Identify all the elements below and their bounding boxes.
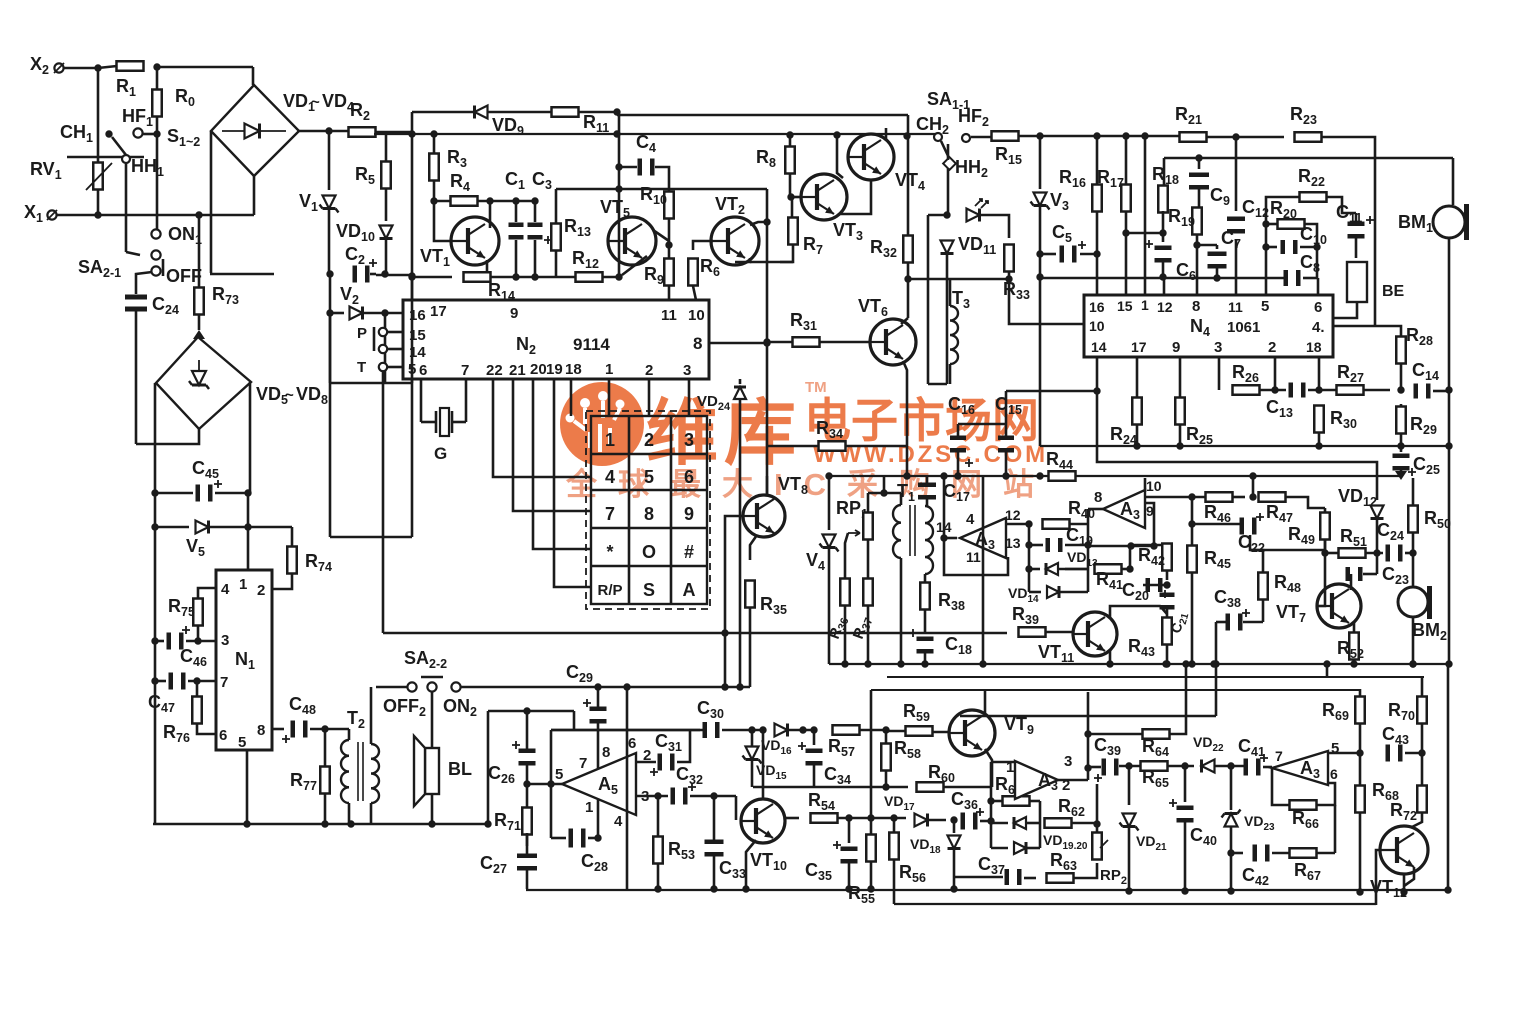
node — [594, 834, 601, 841]
wire — [668, 219, 671, 300]
rail y687 — [461, 686, 750, 689]
keypad row line — [591, 527, 707, 530]
wire — [1197, 244, 1217, 247]
capacitor C37 — [1005, 869, 1022, 885]
diode inside VD1-VD4 — [245, 124, 260, 139]
plate — [451, 411, 454, 433]
resistor R2 — [349, 127, 376, 137]
wire — [932, 731, 950, 734]
ceramic resonator BE — [1347, 262, 1367, 302]
feedback wire — [944, 538, 1008, 575]
node — [1159, 229, 1166, 236]
wire — [813, 730, 816, 745]
wire — [619, 166, 637, 169]
wire — [515, 240, 518, 277]
wire — [551, 729, 704, 732]
wire VT10 collector — [762, 730, 765, 799]
wire — [1285, 497, 1325, 508]
wire pin6 — [420, 379, 423, 422]
pin6 wire — [1316, 783, 1335, 805]
node — [623, 683, 630, 690]
wire VT9 collector — [984, 690, 987, 717]
node — [484, 820, 491, 827]
wire — [156, 116, 159, 215]
zener V4 — [820, 535, 839, 552]
node — [845, 885, 852, 892]
wire — [971, 136, 991, 139]
photodiode LED — [967, 199, 989, 222]
bracket — [373, 327, 376, 351]
pin2 wire — [636, 761, 656, 764]
wire pin21 to keypad row — [513, 379, 591, 511]
node — [710, 792, 717, 799]
wire — [885, 730, 888, 744]
wire — [1166, 607, 1169, 618]
wire pin18 down — [1318, 357, 1321, 390]
svg-text:1061: 1061 — [1227, 319, 1260, 336]
wire — [870, 818, 873, 835]
capacitor C36 — [961, 808, 985, 830]
node — [654, 885, 661, 892]
svg-text:4: 4 — [966, 511, 975, 528]
node — [748, 726, 755, 733]
wire — [156, 215, 159, 229]
wire — [1376, 519, 1379, 553]
node — [1195, 154, 1202, 161]
capacitor C10 — [1281, 240, 1298, 254]
bridge rectifier VD5-VD8 — [156, 337, 251, 429]
capacitor C42 — [1253, 845, 1270, 862]
node — [1445, 386, 1452, 393]
svg-text:7: 7 — [605, 504, 615, 524]
diode VD13 — [1046, 563, 1058, 575]
wire — [1316, 852, 1335, 855]
riser x871 — [870, 690, 873, 787]
resistor R70 — [1417, 697, 1427, 724]
node — [428, 820, 435, 827]
node — [1036, 273, 1043, 280]
wire — [657, 796, 660, 837]
wire — [943, 786, 992, 789]
wire — [1143, 584, 1167, 587]
wire — [1065, 568, 1088, 571]
wire — [1243, 621, 1263, 624]
resistor R6 — [688, 259, 698, 286]
wire — [1045, 631, 1072, 634]
op-amp A3c — [1015, 761, 1058, 799]
node — [833, 131, 840, 138]
diode VD11 — [941, 241, 954, 254]
wire VT8 collector — [766, 476, 769, 496]
wire — [1452, 158, 1455, 205]
svg-text:5: 5 — [238, 734, 246, 751]
wire — [1412, 533, 1415, 553]
wire VT11 collector — [1110, 606, 1167, 618]
wire — [1359, 753, 1362, 785]
w — [751, 730, 754, 746]
transistor VT4 — [848, 134, 894, 180]
resistor R57 — [833, 725, 860, 735]
wire — [249, 382, 252, 493]
svg-text:P: P — [357, 325, 367, 342]
node — [615, 273, 622, 280]
node — [867, 814, 874, 821]
contact T — [379, 363, 387, 371]
node — [1182, 660, 1189, 667]
wire to C11 — [1326, 197, 1356, 213]
wire — [677, 730, 690, 762]
diode inside VD5-VD8 — [189, 371, 209, 389]
wire R34 right — [845, 445, 907, 448]
wire VT7 emitter — [1353, 622, 1356, 633]
node — [1193, 241, 1200, 248]
capacitor C2 — [353, 259, 378, 283]
wire — [907, 115, 910, 137]
svg-text:10: 10 — [688, 307, 705, 324]
wire — [766, 222, 769, 496]
wire — [893, 818, 896, 833]
wire — [1216, 621, 1226, 624]
transistor VT2 — [711, 217, 759, 265]
wire — [1250, 549, 1325, 552]
node — [94, 64, 101, 71]
keypad dashed outline — [586, 411, 710, 609]
node — [326, 309, 333, 316]
wire VT2 base — [693, 241, 713, 250]
wire — [791, 197, 794, 218]
capacitor C34 — [798, 742, 823, 766]
capacitor C23 — [1346, 567, 1363, 581]
wire — [488, 710, 574, 713]
diode VD22 — [1202, 760, 1215, 773]
resistor R60 — [917, 782, 944, 792]
wire VT8 emitter — [750, 535, 757, 560]
resistor R27 — [1337, 385, 1364, 395]
svg-text:21: 21 — [509, 362, 526, 379]
wire rail — [1164, 157, 1453, 160]
wire — [1019, 135, 1180, 138]
wire — [1235, 137, 1238, 211]
wire — [1400, 364, 1403, 390]
wire — [1359, 689, 1362, 697]
node — [721, 683, 728, 690]
wire VT7 base — [1317, 553, 1325, 606]
capacitor C43 — [1386, 745, 1403, 762]
svg-text:4: 4 — [221, 581, 230, 598]
svg-text:*: * — [606, 542, 613, 562]
wire — [526, 711, 529, 749]
svg-text:R/P: R/P — [597, 582, 622, 599]
resistor R68 — [1355, 786, 1365, 813]
capacitor C21 — [1160, 593, 1175, 610]
capacitor C24 — [125, 295, 147, 312]
node — [665, 241, 672, 248]
svg-text:S: S — [643, 580, 655, 600]
node — [615, 185, 622, 192]
wire R48 to C22 — [1250, 535, 1263, 573]
svg-text:1: 1 — [605, 361, 613, 378]
long wire y633 — [383, 632, 750, 635]
node — [1271, 386, 1278, 393]
wire VT1 collector — [489, 201, 492, 228]
wire — [1184, 766, 1187, 802]
wire — [1126, 232, 1163, 235]
zener VD15 — [743, 747, 762, 764]
wire — [1096, 784, 1099, 823]
svg-text:15: 15 — [1117, 298, 1133, 314]
resistor R0 — [152, 90, 162, 117]
op-amp A5 — [562, 753, 636, 815]
wire pin3 down — [1218, 357, 1221, 390]
svg-text:10: 10 — [1089, 318, 1105, 334]
core — [909, 505, 911, 556]
svg-text:7: 7 — [461, 362, 469, 379]
wire — [1230, 827, 1233, 891]
resistor R10 — [664, 192, 674, 219]
svg-text:12: 12 — [1005, 507, 1021, 523]
resistor R8 — [785, 147, 795, 174]
wire — [57, 214, 254, 217]
pin12 wire — [1006, 523, 1029, 526]
op-amp A3d — [1272, 751, 1328, 785]
svg-text:11: 11 — [1228, 299, 1243, 315]
svg-text:3: 3 — [683, 362, 691, 379]
node — [940, 472, 947, 479]
wire — [1412, 478, 1415, 505]
capacitor C1 — [509, 223, 524, 240]
wire — [957, 452, 960, 476]
wire — [655, 167, 669, 191]
wire — [1363, 573, 1377, 576]
node — [151, 677, 158, 684]
wire — [491, 276, 619, 279]
node — [1127, 542, 1134, 549]
wire — [431, 692, 434, 748]
wire — [597, 723, 600, 838]
resistor R61 — [1003, 796, 1030, 806]
node — [1409, 549, 1416, 556]
main rail — [829, 475, 1402, 477]
wire — [1039, 136, 1042, 189]
pin8 wire — [1088, 508, 1103, 511]
node — [151, 489, 158, 496]
node — [1188, 520, 1195, 527]
wire — [1162, 211, 1165, 233]
capacitor C29 — [583, 699, 607, 724]
node — [710, 885, 717, 892]
node — [897, 660, 904, 667]
node — [1212, 660, 1219, 667]
svg-text:4: 4 — [605, 467, 615, 487]
resistor R28 — [1396, 337, 1406, 364]
wire row730 — [551, 729, 700, 732]
wire — [198, 314, 201, 330]
wire — [385, 189, 388, 221]
node — [193, 677, 200, 684]
right rail lower — [1447, 664, 1450, 890]
diode VD10 — [380, 226, 393, 239]
wire — [162, 259, 165, 276]
node — [613, 130, 620, 137]
wire VT12 base — [1376, 850, 1381, 905]
wire — [926, 499, 929, 506]
capacitor C9 — [1189, 173, 1209, 190]
capacitor C47 — [169, 673, 186, 690]
zener VD21 — [1120, 814, 1139, 831]
IC N2 9114 — [403, 300, 709, 379]
left rail — [1266, 197, 1300, 302]
resistor R41 — [1095, 564, 1122, 574]
node — [721, 629, 728, 636]
wire pin20 to keypad row — [533, 379, 591, 549]
plate — [435, 411, 438, 433]
wire — [387, 366, 403, 369]
resistor R3 — [429, 154, 439, 181]
node — [841, 660, 848, 667]
svg-text:全球最大IC采购网站: 全球最大IC采购网站 — [565, 467, 1055, 502]
node — [1188, 493, 1195, 500]
wire — [1421, 677, 1424, 697]
svg-text:17: 17 — [1131, 339, 1147, 355]
node — [1356, 888, 1363, 895]
wire — [693, 286, 696, 300]
node — [1162, 660, 1169, 667]
wire — [1192, 523, 1242, 526]
wire — [1272, 852, 1290, 855]
node — [1397, 442, 1404, 449]
wire — [1163, 158, 1166, 187]
wire T line — [382, 371, 385, 633]
wire — [209, 526, 248, 529]
transistor VT3 — [801, 174, 847, 220]
op-amp A3a — [960, 518, 1006, 558]
terminal X1 — [47, 210, 56, 219]
node — [1093, 250, 1100, 257]
wire — [291, 527, 294, 547]
switch CH1 — [105, 130, 112, 137]
node — [195, 211, 202, 218]
svg-text:12: 12 — [1157, 299, 1173, 315]
wire — [1353, 660, 1356, 664]
diode VD16 — [775, 724, 788, 737]
node — [1262, 220, 1269, 227]
wire — [98, 66, 117, 68]
diode VD19 — [1014, 817, 1026, 829]
wire — [859, 729, 886, 732]
wire — [348, 729, 351, 740]
wire R33 to N4 pin10 — [1009, 272, 1084, 324]
wire — [870, 862, 873, 889]
capacitor C12 — [1227, 217, 1245, 234]
node — [381, 270, 388, 277]
row766a — [1088, 766, 1101, 769]
wire — [1073, 863, 1097, 878]
wire — [154, 493, 157, 527]
node — [613, 108, 620, 115]
wire — [928, 819, 946, 822]
svg-text:T: T — [357, 359, 366, 376]
wire — [1121, 568, 1130, 571]
wire T3 left — [927, 215, 930, 384]
node — [531, 273, 538, 280]
resistor R12 — [576, 272, 603, 282]
node — [1150, 542, 1157, 549]
wire — [868, 492, 901, 495]
wire — [526, 765, 529, 784]
wire — [411, 276, 414, 537]
node — [1315, 442, 1322, 449]
wire — [980, 820, 991, 823]
node — [1315, 386, 1322, 393]
wire — [990, 762, 993, 821]
wire VT3-collector to rail — [837, 135, 843, 178]
wire — [1070, 523, 1088, 526]
resistor R34 — [819, 441, 846, 451]
svg-text:2: 2 — [644, 430, 654, 450]
node — [799, 726, 806, 733]
wire — [900, 493, 903, 505]
node — [1093, 387, 1100, 394]
node — [1025, 565, 1032, 572]
node — [1262, 243, 1269, 250]
wire — [1405, 552, 1413, 555]
wire — [64, 67, 98, 70]
node — [890, 814, 897, 821]
svg-text:8: 8 — [644, 504, 654, 524]
resistor R32 — [903, 236, 913, 263]
wire — [1412, 617, 1415, 664]
wire — [1376, 553, 1379, 574]
wire — [1324, 540, 1327, 553]
node — [1036, 472, 1043, 479]
right rail — [1316, 234, 1319, 278]
wire — [1262, 600, 1265, 622]
resistor R67 — [1290, 848, 1317, 858]
wire — [1040, 253, 1056, 256]
svg-text:5: 5 — [1261, 298, 1269, 315]
resistor R20 — [1278, 219, 1305, 229]
diode VD12 — [1371, 506, 1384, 519]
resistor R51 — [1339, 548, 1366, 558]
node — [325, 127, 332, 134]
resistor R18 — [1158, 186, 1168, 213]
wire pin17 down — [1136, 357, 1139, 398]
wire to C24 — [136, 272, 152, 294]
resistor R77 — [320, 767, 330, 794]
wire — [526, 833, 529, 854]
riser x1088 — [1087, 692, 1090, 780]
wire R34 left — [767, 445, 818, 448]
wire — [588, 837, 598, 840]
w — [1400, 470, 1403, 474]
node — [1163, 660, 1170, 667]
capacitor C3 — [528, 223, 553, 245]
contact SA2-1 b — [151, 266, 160, 275]
wire — [157, 66, 253, 69]
node — [1181, 762, 1188, 769]
node — [1133, 442, 1140, 449]
svg-text:9: 9 — [510, 305, 518, 322]
wire — [1235, 239, 1238, 302]
node — [1122, 229, 1129, 236]
wire — [1184, 822, 1187, 891]
wire VT1 emitter — [486, 260, 489, 277]
wire — [550, 730, 553, 838]
switch bar SA2-2 — [421, 676, 443, 679]
node — [1141, 132, 1148, 139]
resistor R53 — [653, 837, 663, 864]
node — [903, 132, 910, 139]
